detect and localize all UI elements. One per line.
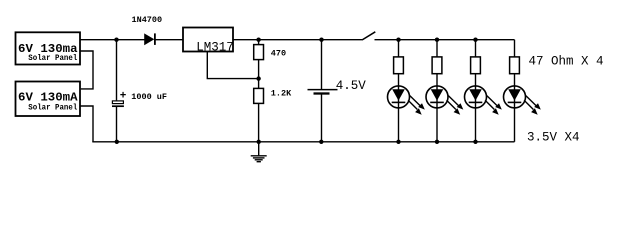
battery B1 4.5V (308, 40, 338, 142)
node branch2 bottom junction dot (435, 140, 439, 144)
LED D2 branch1 (388, 74, 425, 142)
resistor R4 47 ohm branch2 (432, 40, 442, 74)
wire PV2 minus to bottom rail (80, 106, 93, 142)
solar panel PV1 (16, 32, 81, 64)
node ADJ junction dot (256, 76, 260, 80)
svg-text:470: 470 (271, 49, 286, 59)
switch S1 (362, 32, 375, 40)
node B junction dot (256, 38, 260, 42)
resistor R3 47 ohm branch1 (394, 40, 404, 74)
wire PV1 plus to diode (80, 39, 145, 41)
LED D4 branch3 (465, 74, 502, 142)
wire diode to LM317 (155, 39, 183, 41)
svg-text:Solar Panel: Solar Panel (28, 54, 77, 63)
node branch1 bottom junction dot (396, 140, 400, 144)
node C junction dot battery top (319, 38, 323, 42)
wire series link PV1 minus to PV2 plus (80, 51, 93, 89)
node junction dot branch2 top (435, 38, 439, 42)
svg-text:1N4700: 1N4700 (132, 15, 163, 25)
LED D3 branch2 (426, 74, 463, 142)
node ground junction dot (257, 140, 261, 144)
svg-text:+: + (120, 91, 127, 103)
resistor R6 47 ohm branch4 (510, 40, 520, 74)
ground (251, 142, 267, 162)
node branch3 bottom junction dot (473, 140, 477, 144)
wire LM317 out to switch (233, 39, 362, 41)
wire switch to LED rail (375, 39, 515, 41)
svg-text:47 Ohm X 4: 47 Ohm X 4 (529, 54, 604, 68)
svg-text:Solar Panel: Solar Panel (28, 103, 77, 112)
node A junction dot (114, 38, 118, 42)
svg-text:1000 uF: 1000 uF (131, 92, 167, 102)
regulator U1 LM317 (183, 28, 234, 55)
wire bottom rail (92, 141, 514, 143)
diode D1 1N4700 (145, 33, 155, 45)
node D junction dot branch1 top (396, 38, 400, 42)
resistor R1 470 (254, 40, 264, 79)
node cap bottom junction dot (115, 140, 119, 144)
node battery bottom junction dot (319, 140, 323, 144)
LED D5 branch4 (504, 74, 541, 142)
resistor R2 1.2K (254, 79, 264, 142)
svg-text:4.5V: 4.5V (336, 79, 367, 93)
svg-text:1.2K: 1.2K (271, 89, 292, 99)
svg-text:3.5V X4: 3.5V X4 (527, 130, 580, 144)
resistor R5 47 ohm branch3 (471, 40, 481, 74)
svg-text:6V 130mA: 6V 130mA (18, 90, 78, 104)
svg-text:LM317: LM317 (196, 40, 234, 54)
solar panel PV2 (16, 82, 81, 117)
node junction dot branch3 top (473, 38, 477, 42)
capacitor C1 1000uF (112, 40, 124, 142)
wire LM317 ADJ pin (207, 52, 258, 79)
